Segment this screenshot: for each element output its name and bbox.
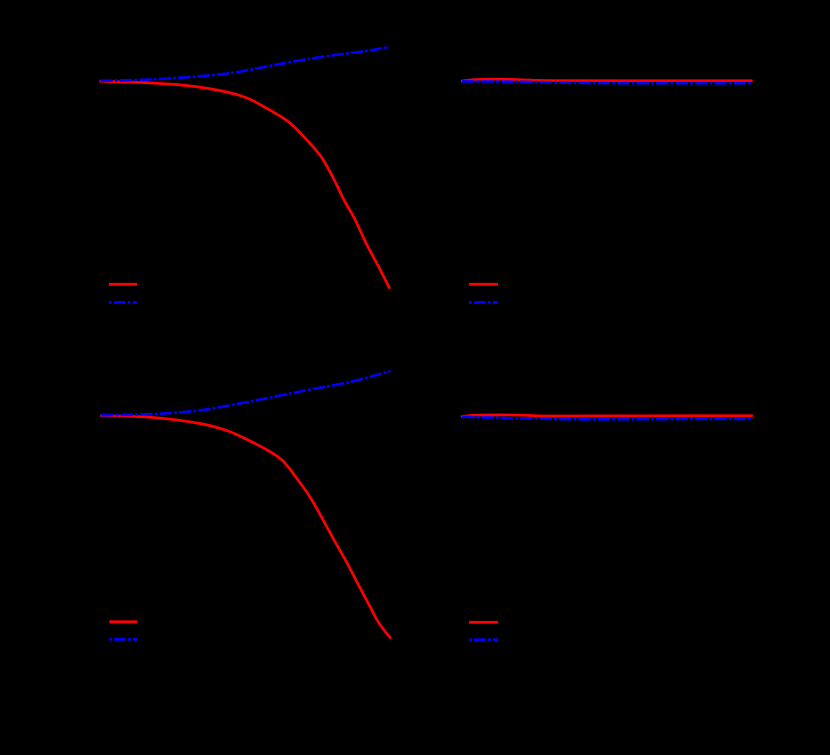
bottom-left subplot: red solid curve (decaying) [102,416,391,638]
bottom-right subplot legend red (solid) key [469,621,498,624]
top-left subplot legend blue (dash-dot) key [109,301,137,304]
top-right subplot: red solid flat line [462,79,752,81]
top-right subplot legend blue (dash-dot) key [469,301,498,304]
top-left subplot: blue dash-dot curve (rising) [101,47,390,81]
top-right subplot legend red (solid) key [469,283,498,286]
bottom-left subplot: blue dash-dot curve (rising) [102,371,391,415]
bottom-right subplot: red solid flat line [462,415,752,417]
bottom-right subplot: blue dash-dot flat line [462,417,752,420]
top-right subplot: blue dash-dot flat line [462,81,751,83]
bottom-right subplot legend blue (dash-dot) key [469,638,498,641]
top-left subplot legend red (solid) key [109,283,137,286]
top-left subplot: red solid curve (decaying) [101,81,390,287]
bottom-left subplot legend red (solid) key [109,620,137,623]
bottom-left subplot legend blue (dash-dot) key [109,638,137,641]
